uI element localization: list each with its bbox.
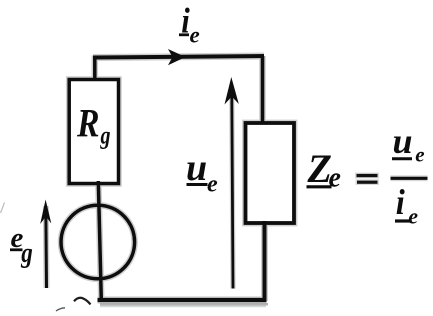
- svg-text:u: u: [393, 121, 413, 161]
- svg-text:i: i: [396, 182, 405, 222]
- svg-text:g: g: [100, 123, 111, 150]
- svg-text:u: u: [186, 147, 207, 189]
- wire right vertical top to Z box: [261, 56, 265, 124]
- scribble mark upper: [74, 298, 91, 305]
- svg-text:e: e: [408, 203, 418, 228]
- arrow ue: [232, 95, 233, 289]
- wire bottom horizontal: [98, 298, 267, 302]
- impedance Ze box: [246, 123, 295, 223]
- source eg circle: [61, 205, 135, 279]
- wire Z box to bottom: [263, 221, 267, 301]
- svg-text:g: g: [20, 237, 32, 269]
- svg-text:e: e: [329, 163, 341, 194]
- resistor Rg: [69, 80, 118, 184]
- scan shadow under bottom wire: [100, 303, 268, 306]
- wire stub top-left to resistor: [93, 56, 97, 83]
- svg-text:e: e: [415, 142, 424, 166]
- arrow eg: [44, 206, 48, 288]
- scribble mark lower: [56, 308, 65, 311]
- svg-text:R: R: [76, 101, 99, 146]
- scan halo under-strokes: [46, 56, 294, 302]
- wire resistor to bottom through source: [98, 181, 101, 300]
- svg-text:e: e: [190, 23, 200, 48]
- equation equals halo: [355, 173, 379, 179]
- svg-text:e: e: [207, 172, 218, 198]
- equation equals: [357, 174, 378, 177]
- scan edge mark left: [1, 203, 5, 214]
- fraction bar: [391, 175, 428, 181]
- wire top horizontal: [93, 56, 264, 58]
- current arrow ie on top wire: [168, 49, 186, 65]
